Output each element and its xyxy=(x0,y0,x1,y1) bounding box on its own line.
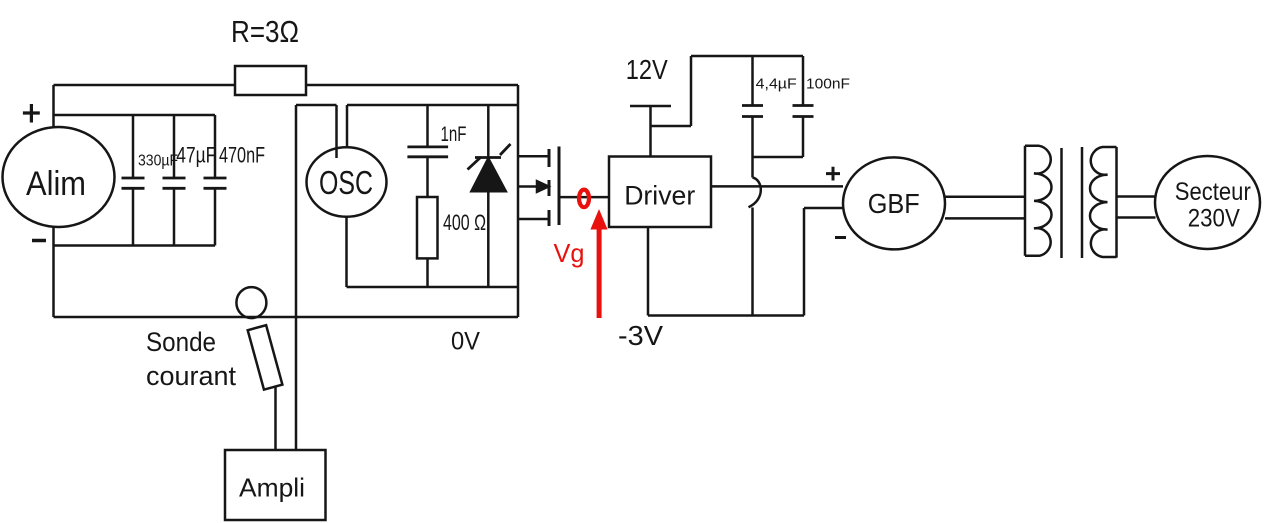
svg-text:330µF: 330µF xyxy=(138,153,178,170)
wire capacitor bank top rail xyxy=(54,114,216,117)
wire from R to OSC box right edge xyxy=(306,84,518,87)
wire secondary to Secteur lower xyxy=(1117,216,1156,219)
current probe ring Sonde xyxy=(236,287,266,318)
svg-text:Vg: Vg xyxy=(554,238,585,268)
wire OSC box top edge left segment xyxy=(296,104,337,107)
red arrow Vg xyxy=(590,209,607,318)
wire Alim left vertical xyxy=(52,85,55,317)
svg-text:-3V: -3V xyxy=(618,320,663,351)
wire GBF to transformer lower xyxy=(945,217,1025,220)
svg-text:1nF: 1nF xyxy=(441,123,467,146)
svg-text:4,4µF: 4,4µF xyxy=(756,76,797,93)
capacitor C6 100nF xyxy=(753,56,814,157)
source Alim xyxy=(3,127,115,227)
wire OSC box top edge right segment xyxy=(347,104,518,107)
wire -3V rail xyxy=(648,314,804,317)
source GBF xyxy=(843,157,945,249)
transformer core xyxy=(1062,147,1083,258)
svg-text:0V: 0V xyxy=(451,328,480,356)
svg-text:courant: courant xyxy=(146,361,236,391)
wire OSC box right edge xyxy=(517,85,520,317)
wire inner bottom rail xyxy=(347,286,519,289)
source Secteur 230V xyxy=(1155,156,1260,249)
wire 12V to Driver top xyxy=(649,106,652,157)
wire 0V bottom rail xyxy=(54,316,519,319)
wire capacitor bank bottom rail xyxy=(54,244,216,247)
svg-text:12V: 12V xyxy=(626,54,668,85)
plus sign Alim xyxy=(23,104,40,123)
wire MOSFET to Driver xyxy=(559,196,609,199)
wire into OSC left tap xyxy=(335,105,338,158)
svg-text:OSC: OSC xyxy=(319,164,373,201)
capacitor C1 330uF xyxy=(122,115,145,246)
svg-text:GBF: GBF xyxy=(868,188,920,219)
wire into OSC right tap xyxy=(346,105,349,148)
wire C5 bottom to -3V rail xyxy=(751,208,754,316)
svg-text:Driver: Driver xyxy=(624,181,695,211)
svg-text:Sonde: Sonde xyxy=(146,327,216,357)
minus sign GBF xyxy=(835,236,846,239)
svg-text:Secteur: Secteur xyxy=(1175,178,1251,206)
wire OSC bottom xyxy=(345,217,348,287)
minus sign Alim xyxy=(32,239,46,243)
capacitor C5 4.4uF xyxy=(742,56,763,178)
wire R2 bottom xyxy=(426,258,429,287)
wire GBF to transformer upper xyxy=(945,196,1025,199)
svg-text:Alim: Alim xyxy=(26,165,86,203)
resistor R1 R=3ohm xyxy=(235,66,306,95)
zener diode D1 xyxy=(468,105,511,287)
current probe body xyxy=(248,325,283,389)
capacitor C3 470nF xyxy=(204,115,227,246)
driver box U1 xyxy=(609,157,711,228)
oscillator OSC circle xyxy=(307,147,387,216)
wire secondary to Secteur upper xyxy=(1117,195,1156,198)
transformer T1 primary winding xyxy=(1025,146,1052,256)
wire GBF minus xyxy=(804,208,844,316)
svg-text:230V: 230V xyxy=(1188,205,1240,233)
wire 12V branch to caps xyxy=(651,56,804,126)
svg-text:47µF: 47µF xyxy=(176,143,216,168)
wire Driver output to GBF plus xyxy=(711,185,843,188)
wire hop over driver output xyxy=(749,178,761,208)
transformer T1 secondary winding xyxy=(1090,147,1117,258)
svg-text:470nF: 470nF xyxy=(219,143,265,168)
supply 12V bar xyxy=(630,105,671,108)
amplifier box Ampli xyxy=(225,450,326,520)
wire OSC box left edge down to Ampli xyxy=(295,105,298,450)
svg-text:400 Ω: 400 Ω xyxy=(443,210,486,235)
svg-text:R=3Ω: R=3Ω xyxy=(231,14,299,49)
svg-text:Ampli: Ampli xyxy=(239,473,305,503)
capacitor C4 1nF xyxy=(407,105,448,197)
resistor R2 400ohm xyxy=(417,197,438,258)
plus sign GBF xyxy=(826,167,840,181)
transistor Q1 MOSFET xyxy=(518,147,559,227)
wire top rail from Alim to R xyxy=(54,84,236,87)
wire Driver bottom to -3V rail xyxy=(647,227,650,316)
svg-text:100nF: 100nF xyxy=(806,76,850,93)
wire probe to Ampli xyxy=(274,388,277,450)
capacitor C2 47uF xyxy=(163,115,186,246)
red marker 0 on gate wire xyxy=(579,190,589,208)
